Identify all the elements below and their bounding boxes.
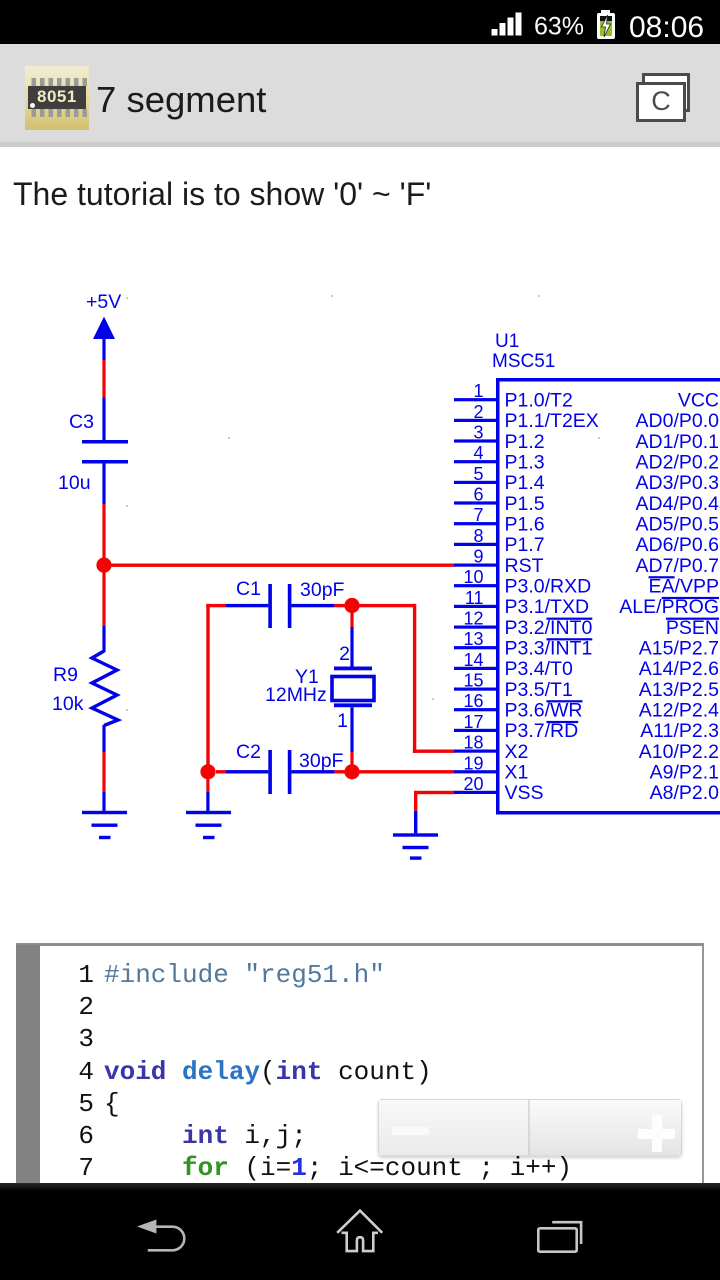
wire crystal pin 1 to node XTAL1 xyxy=(350,707,353,765)
pin 6 xyxy=(454,485,719,515)
pin 13 xyxy=(454,629,719,659)
svg-text:AD4/P0.4: AD4/P0.4 xyxy=(636,493,720,515)
svg-text:12MHz: 12MHz xyxy=(265,684,327,706)
svg-text:30pF: 30pF xyxy=(300,579,345,601)
wire C2 left xyxy=(216,770,268,773)
pin 19 xyxy=(454,753,719,783)
wire node to crystal pin 2 xyxy=(350,610,353,667)
svg-text:C1: C1 xyxy=(236,578,261,600)
svg-text:AD2/P0.2: AD2/P0.2 xyxy=(636,452,719,474)
svg-text:5: 5 xyxy=(473,464,483,484)
svg-text:15: 15 xyxy=(463,671,483,691)
wire XTAL1 to pin 19 xyxy=(352,770,455,773)
svg-text:AD3/P0.3: AD3/P0.3 xyxy=(636,472,719,494)
svg-text:20: 20 xyxy=(463,774,483,794)
pin 7 xyxy=(454,505,719,535)
svg-text:A9/P2.1: A9/P2.1 xyxy=(650,762,719,784)
IC U1 MSC51 body xyxy=(492,331,720,815)
svg-text:U1: U1 xyxy=(495,331,519,352)
svg-text:30pF: 30pF xyxy=(299,750,344,772)
svg-text:X1: X1 xyxy=(505,762,529,784)
wire XTAL2 to pin 18 xyxy=(352,604,455,753)
svg-text:P1.5: P1.5 xyxy=(505,493,545,515)
tutorial text xyxy=(13,176,431,213)
capacitor C1 xyxy=(236,578,345,628)
svg-text:9: 9 xyxy=(473,547,483,567)
svg-text:16: 16 xyxy=(463,691,483,711)
svg-text:10k: 10k xyxy=(52,693,84,715)
svg-text:10: 10 xyxy=(463,567,483,587)
svg-text:18: 18 xyxy=(463,733,483,753)
svg-text:7: 7 xyxy=(473,505,483,525)
pin 12 xyxy=(454,609,719,639)
nav bar xyxy=(0,1183,720,1280)
svg-text:P1.7: P1.7 xyxy=(505,534,545,556)
wire C1 left and down to C2 xyxy=(206,604,268,772)
svg-text:AD0/P0.0: AD0/P0.0 xyxy=(636,410,720,432)
svg-text:A10/P2.2: A10/P2.2 xyxy=(639,741,719,763)
node XTAL1 xyxy=(344,764,359,779)
pin 9 xyxy=(454,547,719,577)
node junction RST xyxy=(96,558,111,573)
svg-text:+5V: +5V xyxy=(86,291,121,313)
pin 18 xyxy=(454,733,719,763)
svg-text:10u: 10u xyxy=(58,472,91,494)
svg-text:P1.0/T2: P1.0/T2 xyxy=(505,390,573,412)
svg-text:R9: R9 xyxy=(53,664,78,686)
svg-text:C3: C3 xyxy=(69,411,94,433)
svg-text:17: 17 xyxy=(463,712,483,732)
code scrollbar xyxy=(16,945,40,1183)
svg-text:A11/P2.3: A11/P2.3 xyxy=(640,720,719,742)
code block frame xyxy=(16,943,704,1184)
ground (VSS) xyxy=(393,833,438,860)
svg-text:P3.0/RXD: P3.0/RXD xyxy=(505,576,592,598)
svg-text:13: 13 xyxy=(463,629,483,649)
svg-text:A13/P2.5: A13/P2.5 xyxy=(639,679,719,701)
svg-text:3: 3 xyxy=(473,423,483,443)
svg-text:P3.1/TXD: P3.1/TXD xyxy=(505,596,590,618)
ground (R9) xyxy=(82,811,127,839)
svg-text:AD5/P0.5: AD5/P0.5 xyxy=(636,514,720,536)
pin 14 xyxy=(454,650,719,680)
pin 8 xyxy=(454,526,719,556)
svg-text:P3.3/INT1: P3.3/INT1 xyxy=(505,638,593,660)
power +5V xyxy=(86,291,121,339)
svg-text:RST: RST xyxy=(505,555,544,577)
svg-text:P1.3: P1.3 xyxy=(505,452,545,474)
svg-text:P3.4/T0: P3.4/T0 xyxy=(505,658,573,680)
wire C2 node to ground xyxy=(206,778,209,811)
capacitor C3 xyxy=(58,411,128,494)
svg-text:P3.6/WR: P3.6/WR xyxy=(505,700,583,722)
wire C3 to junction xyxy=(102,464,105,566)
svg-text:AD7/P0.7: AD7/P0.7 xyxy=(636,555,719,577)
node XTAL2 xyxy=(344,598,359,613)
grid dots xyxy=(126,295,600,711)
svg-text:VCC: VCC xyxy=(678,390,719,412)
svg-text:AD6/P0.6: AD6/P0.6 xyxy=(636,534,719,556)
pin 11 xyxy=(454,588,719,618)
node C2 ground xyxy=(200,764,215,779)
svg-text:P1.2: P1.2 xyxy=(505,431,545,453)
wire C2 right xyxy=(291,770,352,773)
svg-text:19: 19 xyxy=(463,753,483,773)
wire junction to R9 xyxy=(102,565,105,652)
pin 1 xyxy=(454,381,719,411)
svg-text:14: 14 xyxy=(463,650,483,670)
svg-text:A14/P2.6: A14/P2.6 xyxy=(639,658,719,680)
pin 4 xyxy=(454,443,719,473)
pin 17 xyxy=(454,712,719,742)
crystal Y1 12MHz xyxy=(265,643,374,732)
svg-text:P3.5/T1: P3.5/T1 xyxy=(505,679,573,701)
svg-text:C2: C2 xyxy=(236,741,261,763)
svg-text:AD1/P0.1: AD1/P0.1 xyxy=(636,431,719,453)
wire R9 to ground xyxy=(102,725,105,811)
ground (C2) xyxy=(186,811,231,839)
pin 3 xyxy=(454,423,719,453)
action bar xyxy=(0,44,720,147)
status bar xyxy=(0,0,720,44)
svg-text:P3.7/RD: P3.7/RD xyxy=(505,720,579,742)
pin 2 xyxy=(454,402,719,432)
svg-text:ALE/PROG: ALE/PROG xyxy=(619,596,719,618)
pin 20 xyxy=(454,774,719,804)
svg-text:11: 11 xyxy=(465,588,484,608)
pin 5 xyxy=(454,464,719,494)
wire C1 right xyxy=(291,604,352,607)
svg-text:A12/P2.4: A12/P2.4 xyxy=(639,700,719,722)
svg-text:8: 8 xyxy=(473,526,483,546)
svg-text:1: 1 xyxy=(473,381,483,401)
wire +5V to C3 xyxy=(102,338,105,441)
svg-text:EA/VPP: EA/VPP xyxy=(649,576,719,598)
svg-text:4: 4 xyxy=(473,443,483,463)
svg-text:2: 2 xyxy=(339,643,350,665)
svg-text:P3.2/INT0: P3.2/INT0 xyxy=(505,617,593,639)
code text xyxy=(104,959,572,1184)
svg-text:X2: X2 xyxy=(505,741,529,763)
wire RST to pin 9 xyxy=(104,564,454,567)
svg-text:MSC51: MSC51 xyxy=(492,351,555,372)
pin 15 xyxy=(454,671,719,701)
svg-text:A15/P2.7: A15/P2.7 xyxy=(639,638,719,660)
svg-text:12: 12 xyxy=(463,609,483,629)
svg-text:P1.4: P1.4 xyxy=(505,472,545,494)
svg-text:1: 1 xyxy=(337,710,348,732)
zoom controls overlay xyxy=(378,1099,682,1156)
svg-text:2: 2 xyxy=(473,402,483,422)
pin 16 xyxy=(454,691,719,721)
pin 10 xyxy=(454,567,719,597)
copy C icon xyxy=(642,73,690,112)
svg-text:A8/P2.0: A8/P2.0 xyxy=(650,782,720,804)
resistor R9 xyxy=(52,651,118,726)
capacitor C2 xyxy=(236,741,344,794)
svg-text:6: 6 xyxy=(473,485,483,505)
wire VSS to ground xyxy=(414,791,455,834)
code line numbers xyxy=(62,959,94,1184)
svg-text:P1.6: P1.6 xyxy=(505,514,545,536)
svg-text:P1.1/T2EX: P1.1/T2EX xyxy=(505,410,599,432)
svg-text:PSEN: PSEN xyxy=(666,617,719,639)
svg-text:VSS: VSS xyxy=(505,782,544,804)
app icon 8051 xyxy=(25,66,89,130)
